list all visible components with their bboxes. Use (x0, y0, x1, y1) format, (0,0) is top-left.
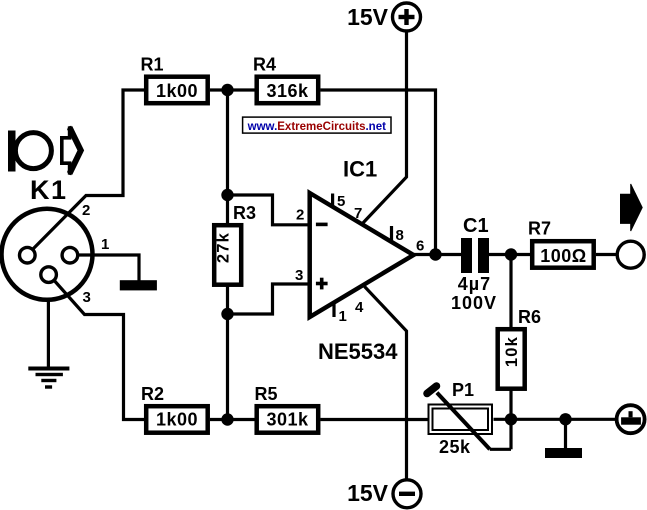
node feedback/output junction (429, 248, 441, 260)
output arrow (621, 184, 643, 231)
svg-text:15V: 15V (347, 4, 389, 30)
-15V supply (347, 480, 421, 508)
wire: P1 right to common terminal (494, 418, 617, 421)
svg-text:100Ω: 100Ω (540, 246, 586, 266)
svg-text:1k00: 1k00 (156, 81, 198, 101)
svg-text:3: 3 (295, 267, 303, 284)
svg-text:8: 8 (396, 227, 404, 244)
svg-text:C1: C1 (463, 215, 489, 237)
wire: op-amp output to C1 (414, 253, 462, 256)
svg-text:4µ7: 4µ7 (458, 274, 491, 294)
resistor R4 (253, 55, 318, 104)
svg-text:1: 1 (339, 308, 347, 325)
svg-text:10k: 10k (503, 336, 521, 367)
connector K1 (2, 209, 93, 300)
wire: K1 pin2 to R1 (30, 90, 144, 252)
wire: op-amp pin4 to -15V (365, 287, 407, 481)
node R1/R4 junction (221, 84, 233, 96)
node R3 bottom (221, 308, 233, 320)
svg-text:1: 1 (101, 236, 109, 253)
K1 pin2 contact (20, 247, 36, 263)
K1 pin1 contact (62, 247, 78, 263)
svg-text:301k: 301k (266, 410, 309, 430)
pin8 tick (390, 226, 393, 241)
wire: K1 shell to earth ground (47, 298, 50, 367)
svg-text:5: 5 (337, 193, 345, 210)
resistor R3 (214, 203, 256, 285)
svg-text:R1: R1 (141, 55, 164, 75)
node P1/R6 junction (505, 413, 517, 425)
svg-text:R6: R6 (518, 307, 541, 327)
minus sign pin2 (316, 223, 328, 227)
svg-text:6: 6 (416, 238, 424, 255)
wire: K1 pin3 to R2 (52, 278, 144, 420)
svg-text:IC1: IC1 (343, 157, 377, 182)
resistor R7 (528, 219, 594, 268)
svg-text:www.ExtremeCircuits.net: www.ExtremeCircuits.net (247, 121, 386, 133)
wire: +15V to op-amp pin7 (362, 31, 407, 225)
resistor R1 (141, 55, 208, 104)
svg-text:3: 3 (83, 289, 91, 306)
pin1 tick (332, 303, 335, 317)
wire: node to op-amp pin3 (228, 284, 311, 314)
svg-text:7: 7 (354, 205, 362, 222)
svg-text:25k: 25k (439, 437, 471, 457)
op-amp IC1 (295, 157, 424, 365)
+15V supply (347, 3, 420, 31)
wire: K1 pin1 to chassis ground (78, 255, 140, 281)
P1 wiper diagonal (437, 393, 490, 450)
wire: R6 bottom to wiper level (509, 389, 512, 449)
svg-text:15V: 15V (347, 480, 389, 506)
wire: R7 to output terminal (596, 253, 618, 256)
wire: R5 to P1 (321, 418, 430, 421)
node R2/R5 junction (221, 413, 233, 425)
svg-text:316k: 316k (266, 81, 309, 101)
wire: R2 to R5 (210, 418, 255, 421)
capacitor C1 (451, 215, 497, 313)
node C1/R6/R7 junction (505, 248, 517, 260)
svg-text:P1: P1 (452, 380, 474, 400)
svg-text:K1: K1 (30, 175, 68, 205)
wire: R3 column spine (226, 90, 229, 420)
chassis ground bottom (545, 448, 582, 458)
wire: node to op-amp pin2 (228, 195, 311, 225)
node R3 top (221, 189, 233, 201)
resistor R6 (498, 307, 541, 389)
K1 pin3 contact (41, 267, 57, 283)
wire: P1 wiper to R6 bottom (490, 448, 511, 451)
svg-text:100V: 100V (451, 293, 497, 313)
plus sign pin3 (316, 282, 328, 286)
P1 wiper tip (427, 386, 437, 394)
banner www.ExtremeCircuits.net (243, 117, 391, 133)
svg-text:1k00: 1k00 (156, 410, 198, 430)
svg-text:NE5534: NE5534 (318, 339, 398, 364)
svg-text:R3: R3 (233, 203, 256, 223)
earth ground (28, 367, 69, 389)
common terminal circle (617, 405, 645, 433)
resistor R2 (141, 384, 208, 433)
chassis ground at pin1 (120, 280, 157, 290)
wire: R4 to feedback corner down to output (321, 90, 436, 255)
microphone symbol (8, 131, 51, 172)
pin5 tick (331, 194, 334, 208)
wire: junction to R6 (509, 255, 512, 329)
svg-text:R7: R7 (528, 219, 551, 239)
wire: R1 to R4 (210, 88, 255, 91)
svg-text:R5: R5 (255, 384, 278, 404)
svg-text:4: 4 (355, 299, 364, 316)
svg-text:R2: R2 (141, 384, 164, 404)
potentiometer P1 (427, 380, 492, 457)
node ground junction (559, 413, 571, 425)
microphone arrow (62, 127, 81, 175)
svg-text:R4: R4 (253, 55, 276, 75)
svg-text:2: 2 (296, 207, 304, 224)
svg-text:2: 2 (82, 202, 90, 219)
output terminal circle (617, 241, 644, 268)
resistor R5 (255, 384, 319, 433)
wire: C1 to R7 (489, 253, 530, 256)
wire: junction down to chassis ground (564, 419, 567, 448)
svg-text:27k: 27k (214, 232, 232, 263)
